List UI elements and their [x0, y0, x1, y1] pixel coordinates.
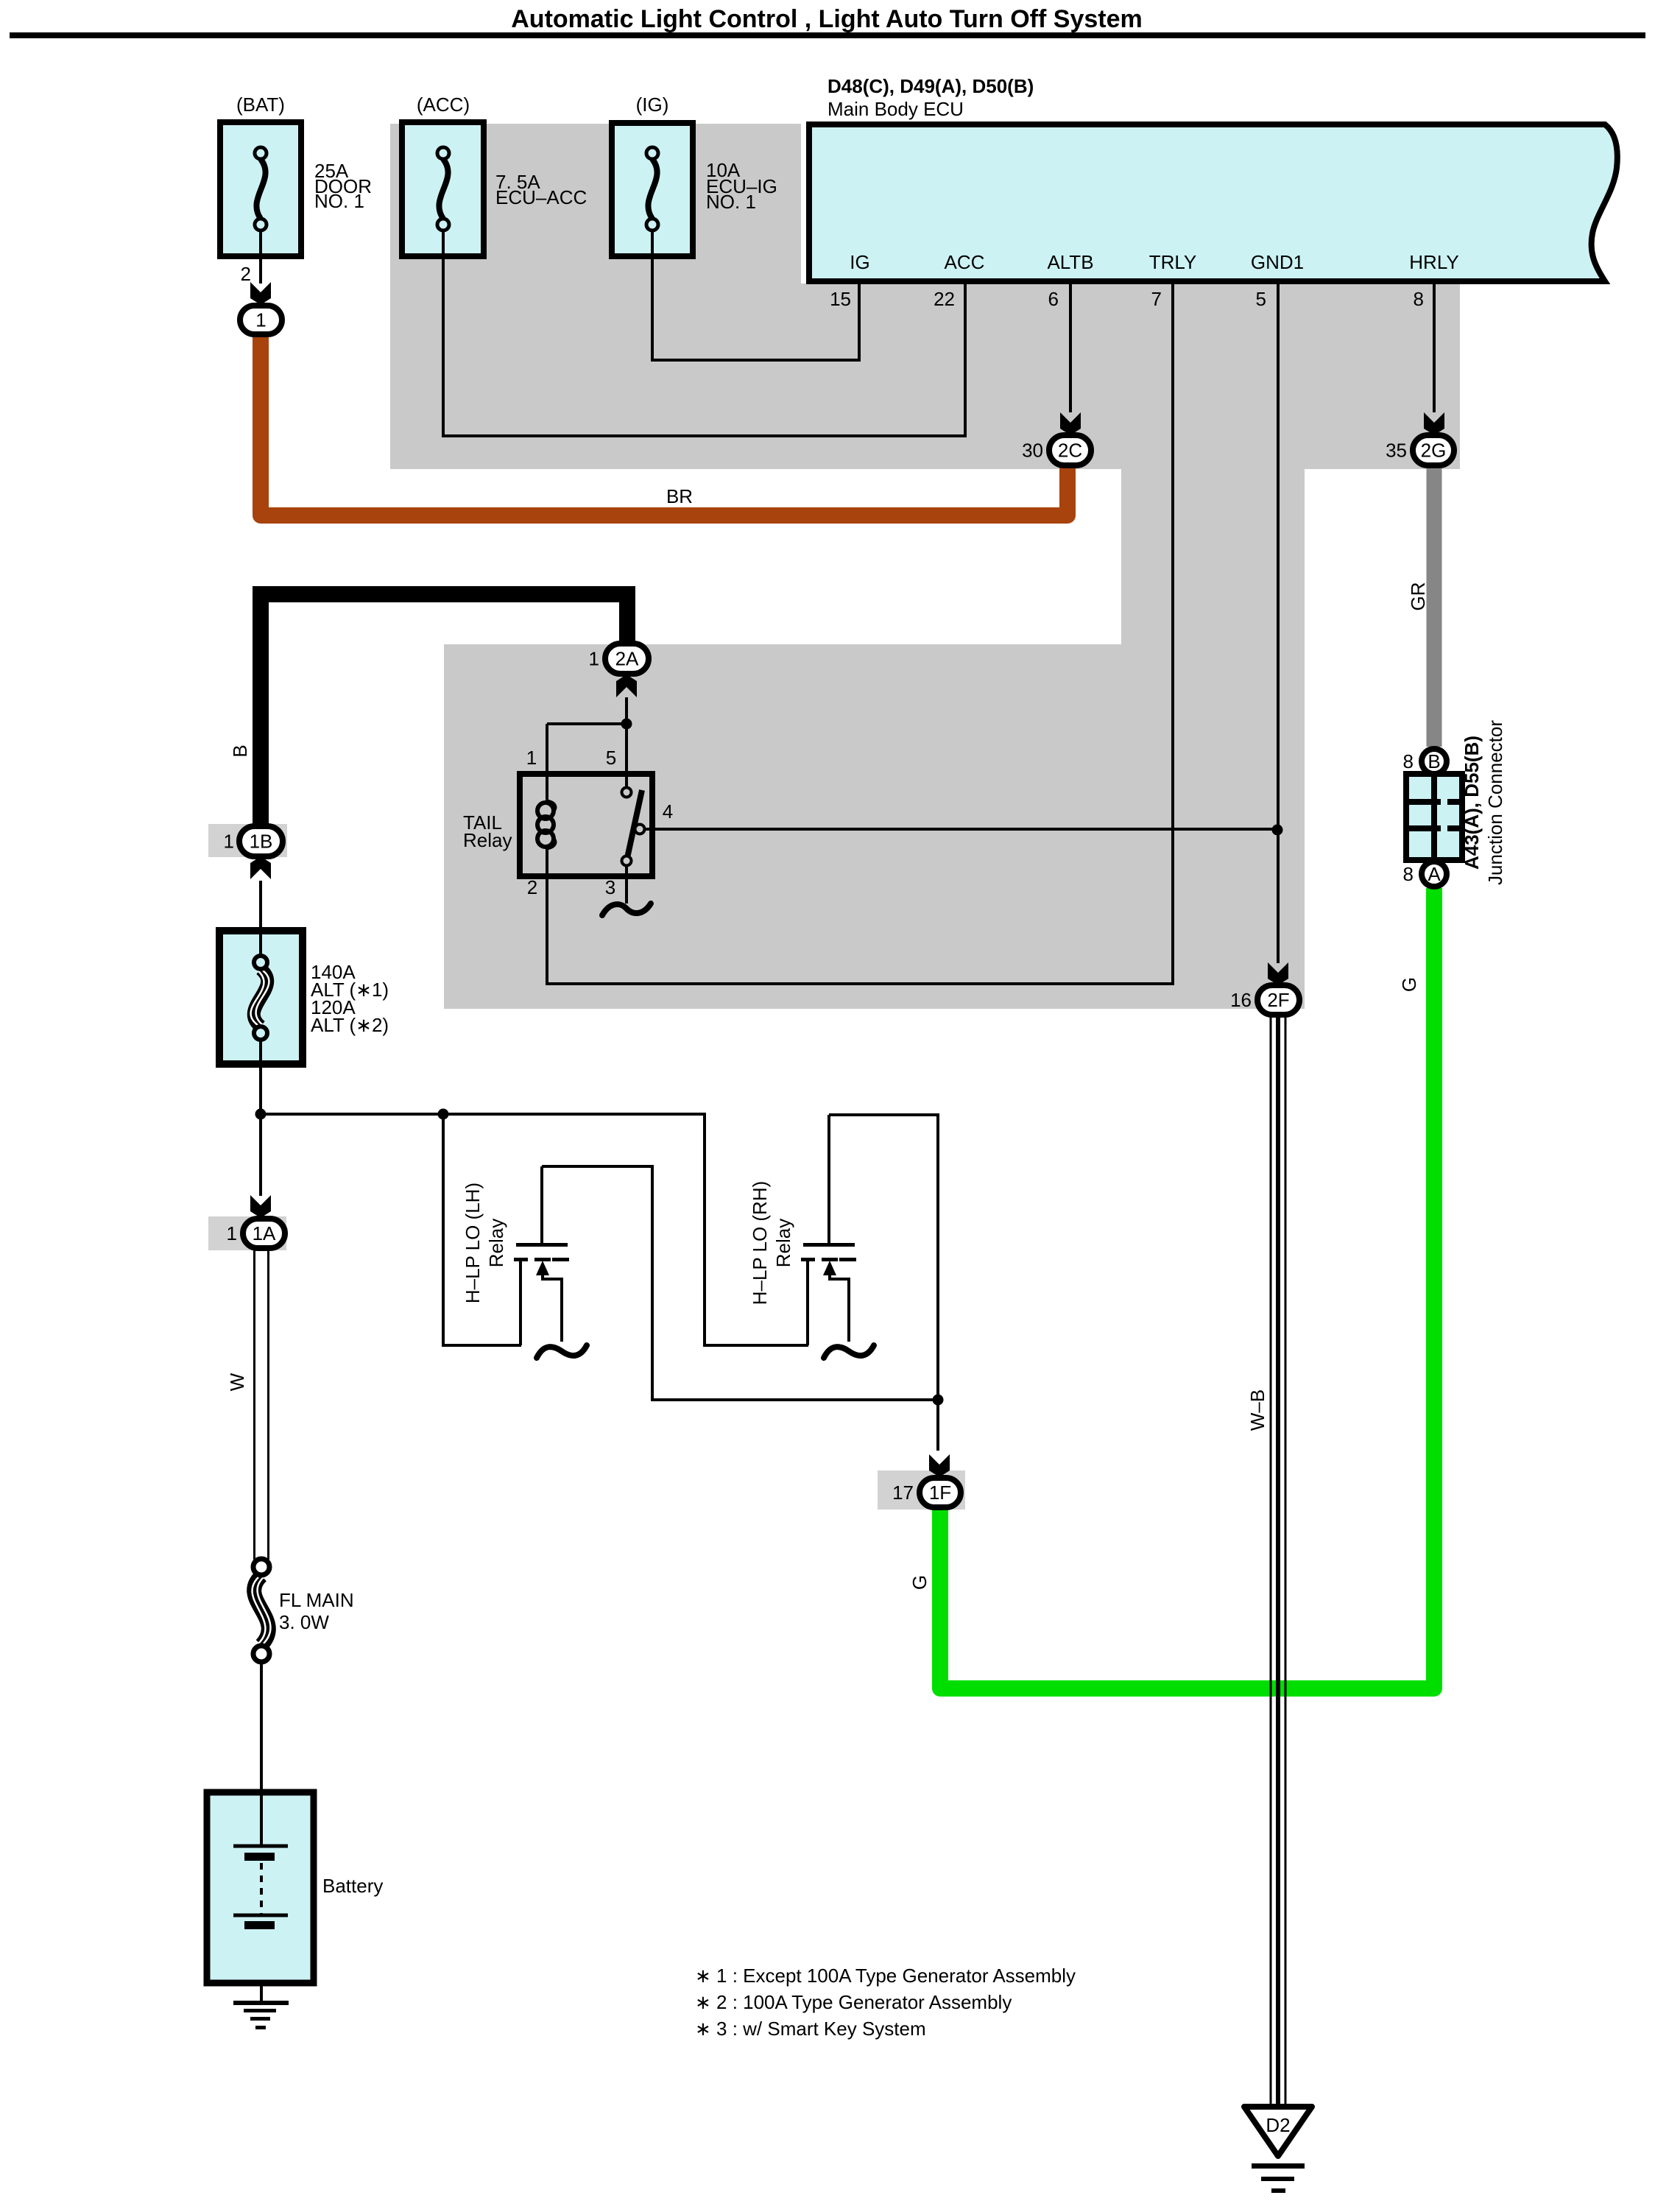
- svg-text:D48(C), D49(A), D50(B): D48(C), D49(A), D50(B): [827, 75, 1034, 97]
- svg-text:1A: 1A: [253, 1222, 276, 1244]
- svg-text:35: 35: [1386, 440, 1407, 462]
- svg-text:Relay: Relay: [485, 1219, 507, 1267]
- svg-text:Main Body ECU: Main Body ECU: [827, 98, 964, 120]
- svg-text:GR: GR: [1407, 582, 1429, 611]
- svg-text:5: 5: [606, 747, 616, 769]
- svg-text:22: 22: [934, 288, 955, 310]
- svg-text:G: G: [908, 1575, 931, 1590]
- svg-text:W–B: W–B: [1246, 1389, 1268, 1431]
- svg-text:∗ 2 : 100A Type Generator Asse: ∗ 2 : 100A Type Generator Assembly: [695, 1991, 1012, 2013]
- svg-text:G: G: [1398, 977, 1420, 992]
- svg-text:FL MAIN: FL MAIN: [279, 1589, 354, 1611]
- svg-text:1: 1: [255, 309, 266, 331]
- svg-text:2: 2: [241, 263, 251, 285]
- svg-text:H–LP LO (LH): H–LP LO (LH): [462, 1183, 484, 1303]
- svg-text:5: 5: [1256, 288, 1266, 310]
- svg-text:1: 1: [227, 1222, 237, 1244]
- svg-text:17: 17: [892, 1482, 914, 1504]
- svg-text:ALT (∗2): ALT (∗2): [311, 1014, 389, 1036]
- svg-text:16: 16: [1230, 989, 1252, 1011]
- svg-text:Junction Connector: Junction Connector: [1484, 720, 1506, 885]
- svg-text:NO. 1: NO. 1: [314, 190, 364, 212]
- svg-text:15: 15: [830, 288, 851, 310]
- svg-text:ECU–ACC: ECU–ACC: [495, 186, 587, 208]
- svg-text:H–LP LO (RH): H–LP LO (RH): [749, 1181, 771, 1306]
- svg-text:TRLY: TRLY: [1149, 251, 1197, 273]
- svg-text:8: 8: [1414, 288, 1424, 310]
- svg-text:∗ 1 : Except 100A Type Generat: ∗ 1 : Except 100A Type Generator Assembl…: [695, 1965, 1076, 1987]
- svg-text:Relay: Relay: [772, 1219, 794, 1267]
- svg-text:3. 0W: 3. 0W: [279, 1611, 329, 1633]
- svg-text:30: 30: [1022, 440, 1043, 462]
- svg-text:ALTB: ALTB: [1047, 251, 1093, 273]
- svg-text:A43(A), D55(B): A43(A), D55(B): [1461, 736, 1483, 870]
- svg-text:2C: 2C: [1058, 440, 1082, 462]
- svg-text:NO. 1: NO. 1: [706, 191, 756, 213]
- svg-text:D2: D2: [1266, 2114, 1290, 2136]
- svg-text:8: 8: [1403, 863, 1414, 885]
- svg-text:W: W: [226, 1373, 248, 1391]
- svg-text:1F: 1F: [929, 1482, 951, 1504]
- svg-text:4: 4: [663, 800, 673, 823]
- svg-text:1: 1: [224, 831, 234, 853]
- svg-text:ACC: ACC: [945, 251, 985, 273]
- svg-text:8: 8: [1403, 750, 1414, 772]
- svg-text:IG: IG: [850, 251, 869, 273]
- svg-text:1: 1: [589, 648, 599, 670]
- svg-text:Automatic Light Control , Ligh: Automatic Light Control , Light Auto Tur…: [511, 5, 1142, 33]
- svg-text:A: A: [1428, 863, 1441, 885]
- svg-text:2: 2: [527, 876, 537, 898]
- svg-text:B: B: [229, 744, 251, 757]
- svg-text:2A: 2A: [615, 648, 639, 670]
- svg-text:(BAT): (BAT): [236, 94, 285, 116]
- svg-text:2G: 2G: [1421, 440, 1447, 462]
- svg-text:∗ 3 : w/ Smart Key System: ∗ 3 : w/ Smart Key System: [695, 2018, 926, 2040]
- svg-text:HRLY: HRLY: [1409, 251, 1458, 273]
- svg-text:1: 1: [526, 747, 537, 769]
- svg-text:Relay: Relay: [463, 829, 512, 851]
- svg-text:3: 3: [605, 876, 615, 898]
- svg-text:BR: BR: [666, 485, 693, 507]
- svg-text:7: 7: [1151, 288, 1162, 310]
- svg-text:Battery: Battery: [322, 1875, 383, 1897]
- svg-text:(ACC): (ACC): [417, 94, 470, 116]
- svg-text:(IG): (IG): [636, 94, 669, 116]
- svg-text:6: 6: [1048, 288, 1059, 310]
- svg-text:2F: 2F: [1267, 989, 1289, 1011]
- svg-text:B: B: [1428, 750, 1440, 772]
- svg-text:GND1: GND1: [1251, 251, 1304, 273]
- svg-text:1B: 1B: [250, 831, 273, 853]
